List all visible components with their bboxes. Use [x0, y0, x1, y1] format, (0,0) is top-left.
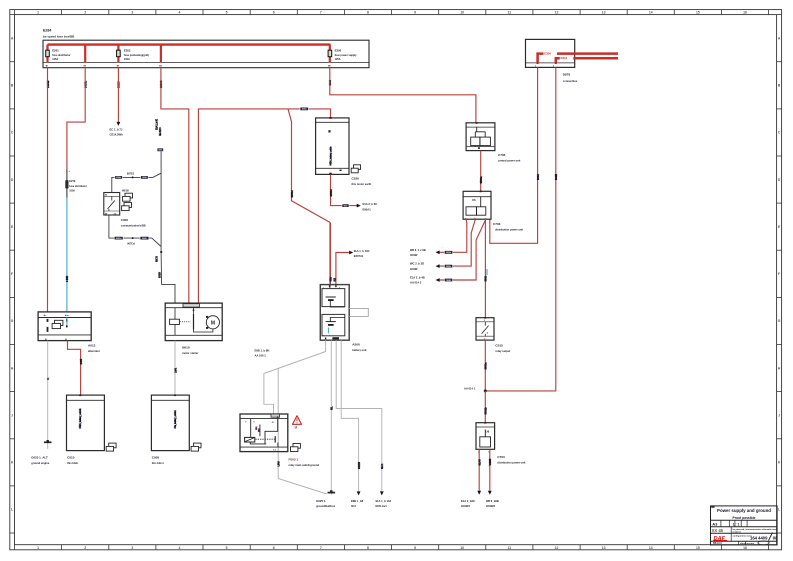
- svg-text:L9A1: L9A1: [174, 367, 177, 373]
- wire A500 to ground G025: [330, 340, 332, 495]
- svg-text:E6B 1_b 8H: E6B 1_b 8H: [255, 348, 270, 352]
- svg-text:E300: E300: [544, 51, 551, 55]
- svg-text:U6: U6: [472, 198, 476, 202]
- alternator A013: [38, 312, 91, 341]
- warning triangle F003: [293, 416, 302, 425]
- battery cell symbol lower A500: [326, 318, 345, 334]
- svg-text:central power unit: central power unit: [498, 159, 520, 163]
- svg-text:2495: 2495: [79, 358, 83, 364]
- B010 solenoid coil: [170, 319, 180, 324]
- svg-text:W8 6_b6B: W8 6_b6B: [486, 499, 499, 503]
- battery unit A500: [320, 285, 349, 341]
- wire A500 to F003 coil: [264, 340, 326, 414]
- icon F003 housing: [291, 444, 301, 452]
- icon C010 housing: [106, 443, 116, 451]
- svg-text:14: 14: [649, 10, 653, 14]
- svg-text:13: 13: [602, 546, 606, 550]
- svg-text:16: 16: [743, 546, 747, 550]
- svg-text:3: 3: [131, 10, 133, 14]
- title block: [711, 506, 778, 545]
- svg-text:9: 9: [414, 10, 416, 14]
- C703 lower internal: [480, 430, 491, 448]
- svg-text:907Cxl: 907Cxl: [127, 242, 135, 245]
- svg-text:G023 1_ALT: G023 1_ALT: [31, 456, 48, 460]
- wire C020 to E1A arrow: [331, 175, 358, 206]
- svg-text:91L: 91L: [332, 406, 334, 410]
- svg-text:E202: E202: [124, 48, 131, 52]
- svg-text:motor starter: motor starter: [182, 351, 198, 355]
- svg-text:connectbox: connectbox: [563, 79, 578, 83]
- relay C015 contact: [482, 322, 489, 336]
- svg-text:1: 1: [37, 546, 39, 550]
- svg-text:6: 6: [273, 10, 275, 14]
- svg-text:this motor earth: this motor earth: [352, 182, 372, 186]
- svg-text:G: G: [11, 319, 14, 323]
- E284 pin numbers: [46, 65, 332, 68]
- wire label 9001: [486, 269, 488, 275]
- svg-text:6 1: 6 1: [273, 450, 276, 452]
- svg-text:D878: D878: [563, 73, 571, 77]
- svg-text:2: 2: [245, 422, 246, 424]
- distribution unit C703: [463, 191, 491, 220]
- svg-text:2: 2: [84, 10, 86, 14]
- svg-text:B: B: [778, 84, 781, 88]
- wire label 9000a: [300, 107, 309, 110]
- wire node to C703 lower: [484, 391, 486, 423]
- wire label 9508d: [444, 251, 453, 254]
- connect box D878: [526, 39, 575, 67]
- wire thin red to A500 with arrow branch: [336, 253, 351, 285]
- wire thick battery feed 1: [538, 54, 618, 63]
- B010 contact bar: [193, 314, 195, 330]
- starter motor B010: [165, 303, 222, 341]
- wire black trunk: [161, 151, 175, 304]
- svg-text:8: 8: [367, 10, 369, 14]
- svg-text:91A 1: 91A 1: [381, 463, 384, 469]
- svg-text:fuse distributor: fuse distributor: [69, 185, 87, 188]
- svg-text:A: A: [11, 36, 14, 40]
- svg-text:BB 10.0: BB 10.0: [713, 542, 722, 545]
- wire A500 through F003 to ground: [278, 368, 327, 494]
- svg-text:3: 3: [131, 546, 133, 550]
- svg-text:EC 1_b 7J: EC 1_b 7J: [110, 128, 123, 132]
- svg-text:2: 2: [484, 320, 485, 322]
- svg-text:30: 30: [329, 129, 331, 132]
- svg-text:3 BM: 3 BM: [65, 275, 69, 282]
- ground G023 1_ALT: [44, 441, 52, 443]
- svg-text:H01W: H01W: [410, 267, 418, 271]
- svg-text:distribution power unit: distribution power unit: [497, 460, 525, 464]
- icon C020 housing: [351, 165, 360, 173]
- svg-text:E284: E284: [43, 29, 51, 33]
- svg-text:9000d: 9000d: [290, 190, 294, 198]
- wire A013 B- to battery C010: [68, 341, 81, 396]
- svg-text:fuse distributor: fuse distributor: [52, 54, 70, 57]
- C703 internal: [466, 197, 486, 216]
- svg-text:9: 9: [414, 546, 416, 550]
- wire C706 to C703: [480, 151, 482, 192]
- svg-text:E312: E312: [561, 56, 568, 60]
- svg-text:this bbbr: this bbbr: [67, 461, 78, 465]
- F003 linkage dashed: [255, 438, 274, 440]
- svg-text:86: 86: [105, 195, 107, 197]
- svg-text:communication/s/BB: communication/s/BB: [121, 224, 146, 227]
- wire label 9002d: [114, 236, 124, 239]
- wire pin2 to connector E279: [67, 68, 85, 170]
- wire A500 to arrow 91A: [336, 340, 382, 491]
- wire C703 lower pin a down: [478, 449, 480, 490]
- wire B010 to battery C905: [174, 341, 176, 396]
- svg-text:91A 1_b 13J: 91A 1_b 13J: [376, 499, 392, 503]
- icon C905 housing: [191, 443, 201, 451]
- battery C905: [151, 394, 189, 450]
- svg-text:H018: H018: [122, 189, 129, 193]
- svg-text:W865: W865: [488, 458, 492, 465]
- svg-text:9001b: 9001b: [484, 407, 488, 415]
- svg-text:E: E: [778, 225, 781, 229]
- svg-text:fuse power supply: fuse power supply: [335, 54, 358, 57]
- svg-text:a: a: [69, 171, 71, 173]
- svg-text:C408: C408: [121, 218, 129, 222]
- relay F003: [240, 414, 288, 452]
- svg-text:900e: 900e: [344, 205, 348, 207]
- wire C703 to relay C015: [484, 219, 486, 318]
- svg-text:F: F: [778, 272, 780, 276]
- svg-text:C010: C010: [67, 456, 75, 460]
- svg-text:E1A 2_b 4B: E1A 2_b 4B: [410, 276, 425, 280]
- junction dot 9002: [132, 237, 134, 239]
- svg-text:C706: C706: [498, 153, 506, 157]
- svg-text:100A: 100A: [124, 58, 130, 61]
- svg-text:2: 2: [339, 287, 340, 289]
- svg-text:9002 d: 9002 d: [116, 238, 122, 240]
- C706 internal fuses: [471, 127, 491, 147]
- svg-text:C020: C020: [352, 177, 360, 181]
- svg-text:6: 6: [273, 546, 275, 550]
- svg-text:F: F: [11, 272, 13, 276]
- svg-text:E1A 2_b 9E: E1A 2_b 9E: [156, 118, 159, 130]
- svg-text:11: 11: [508, 546, 512, 550]
- F003 contact: [274, 436, 276, 442]
- svg-text:E6B 1_b8: E6B 1_b8: [351, 499, 364, 503]
- B010 motor M: [206, 316, 219, 329]
- svg-text:L: L: [11, 508, 13, 512]
- svg-text:7: 7: [320, 546, 322, 550]
- svg-text:H01W: H01W: [410, 253, 418, 257]
- fuse box E284: [43, 29, 369, 68]
- node AA 014 1: [484, 389, 487, 392]
- svg-text:ground/battbox: ground/battbox: [316, 504, 336, 508]
- wire label 9002f: [140, 236, 150, 239]
- svg-text:WC 2_b 2D: WC 2_b 2D: [410, 262, 424, 266]
- relay C015: [476, 317, 494, 340]
- svg-text:B-: B-: [45, 339, 48, 341]
- wire fuse drop pin 3: [117, 45, 119, 63]
- svg-text:92C B: 92C B: [156, 256, 158, 262]
- svg-text:8 1: 8 1: [272, 422, 275, 424]
- battery C010: [67, 394, 105, 450]
- svg-text:7: 7: [320, 10, 322, 14]
- wire C703 pin c to E1A arrow: [439, 219, 486, 280]
- wire label 9508e: [444, 264, 453, 267]
- svg-text:13: 13: [602, 10, 606, 14]
- wire cyan E279 to alternator: [66, 198, 68, 312]
- svg-text:4: 4: [179, 10, 181, 14]
- svg-text:12: 12: [555, 10, 559, 14]
- svg-text:1: 1: [323, 287, 324, 289]
- svg-text:L: L: [778, 508, 780, 512]
- svg-text:2: 2: [553, 66, 554, 68]
- wire fuse E202 stub arrow: [117, 68, 119, 122]
- svg-text:85: 85: [105, 213, 107, 215]
- svg-text:9001V: 9001V: [159, 271, 161, 278]
- wire C703 pin a to W8 arrow: [439, 219, 467, 252]
- wire fuse E201 to alternator A013: [47, 68, 49, 312]
- svg-text:fuse preheating(grid): fuse preheating(grid): [124, 54, 149, 57]
- svg-text:9000d: 9000d: [329, 189, 333, 197]
- wire fuse drop pin 5: [329, 45, 331, 63]
- svg-text:E67LAv1: E67LAv1: [376, 504, 388, 508]
- svg-text:5: 5: [226, 546, 228, 550]
- svg-text:W8 6_1 x 6B: W8 6_1 x 6B: [410, 248, 426, 252]
- wire label 9508f: [444, 278, 453, 281]
- relay C408: [104, 193, 120, 216]
- svg-text:9500a: 9500a: [479, 176, 483, 184]
- svg-text:91A 1_b 10C: 91A 1_b 10C: [354, 249, 370, 253]
- battery cell symbol upper A500: [326, 297, 345, 307]
- svg-text:E1A 2_b2C: E1A 2_b2C: [461, 499, 475, 503]
- svg-text:be powered, interconnection sc: be powered, interconnection schematic tr…: [733, 528, 779, 531]
- svg-text:D: D: [11, 178, 14, 182]
- svg-text:F003 1: F003 1: [289, 458, 299, 462]
- wire C703 pin b to WC arrow: [439, 219, 476, 266]
- svg-text:C015: C015: [495, 344, 503, 348]
- svg-text:D: D: [778, 178, 781, 182]
- wire fuse drop pin 2: [84, 45, 86, 63]
- svg-text:5F: 5F: [295, 428, 298, 430]
- wire D878 pin2 down to node AA 014 1: [485, 67, 556, 391]
- svg-text:9004f: 9004f: [142, 176, 147, 179]
- svg-text:Power supply and ground: Power supply and ground: [717, 508, 771, 513]
- svg-text:K: K: [11, 461, 14, 465]
- svg-text:900A: 900A: [536, 174, 540, 180]
- svg-text:AA 016 1: AA 016 1: [255, 354, 267, 358]
- svg-text:3C4: 3C4: [351, 504, 356, 508]
- svg-text:11: 11: [508, 10, 512, 14]
- power unit C706: [466, 122, 495, 150]
- svg-text:9001a: 9001a: [484, 362, 488, 370]
- svg-text:AE 012 3: AE 012 3: [159, 127, 162, 136]
- wire D878 pin1 down to C703: [490, 67, 538, 243]
- wire C703 lower pin b down: [489, 449, 491, 490]
- svg-text:987GJ: 987GJ: [127, 172, 135, 175]
- svg-text:5: 5: [226, 10, 228, 14]
- svg-text:E90A1: E90A1: [363, 207, 372, 211]
- wire relay C015 to node AA 014 1: [484, 340, 486, 391]
- wire fuse drop pin 1: [46, 45, 48, 63]
- svg-text:CE14,5WA: CE14,5WA: [110, 132, 123, 136]
- svg-text:125A: 125A: [335, 58, 341, 61]
- wire relay top to black trunk: [112, 173, 161, 192]
- distribution unit C703 lower: [476, 422, 495, 449]
- svg-text:10: 10: [460, 10, 464, 14]
- B010 internal wires: [175, 308, 213, 336]
- wire battery bus to starter and A500: [198, 109, 330, 306]
- svg-text:15: 15: [696, 546, 700, 550]
- svg-text:900B: 900B: [554, 174, 558, 180]
- svg-text:9508e: 9508e: [446, 266, 451, 268]
- svg-text:E1A 2_b 6C: E1A 2_b 6C: [363, 202, 378, 206]
- svg-text:relay output: relay output: [495, 349, 510, 353]
- svg-text:1: 1: [484, 339, 485, 341]
- B010 linkage dashed: [180, 321, 191, 323]
- svg-text:9001: 9001: [484, 275, 488, 281]
- svg-text:9002 f: 9002 f: [142, 238, 147, 240]
- svg-text:04a_battery_cable1: 04a_battery_cable1: [174, 410, 177, 429]
- svg-text:B4: B4: [159, 65, 162, 68]
- svg-text:2: 2: [84, 546, 86, 550]
- svg-text:U8: U8: [486, 430, 490, 434]
- F003 internal wires: [250, 416, 278, 447]
- svg-text:100A: 100A: [69, 190, 75, 193]
- svg-text:4: 4: [179, 546, 181, 550]
- svg-text:15: 15: [696, 10, 700, 14]
- svg-text:16: 16: [743, 10, 747, 14]
- svg-text:be speed fuse box/BB: be speed fuse box/BB: [43, 34, 75, 38]
- wire fuse drop pin 4: [160, 45, 162, 63]
- svg-text:E201: E201: [52, 48, 59, 52]
- svg-text:08: 08: [773, 535, 778, 540]
- svg-text:90B1W: 90B1W: [359, 461, 361, 469]
- relay C408 contact: [108, 196, 115, 211]
- svg-text:04BA_battery_cable: 04BA_battery_cable: [330, 146, 333, 166]
- svg-text:J: J: [11, 413, 13, 417]
- fuse E202 100A: [117, 48, 149, 61]
- svg-text:A: A: [778, 36, 781, 40]
- svg-text:B: B: [11, 84, 14, 88]
- wire red bus bar in E284: [48, 43, 331, 45]
- svg-text:9508f: 9508f: [446, 280, 451, 282]
- connector box C020: [316, 117, 349, 175]
- wire label 9004d: [115, 176, 123, 179]
- svg-text:XX 45: XX 45: [712, 528, 724, 533]
- svg-text:AA 014 1: AA 014 1: [464, 386, 476, 390]
- svg-text:H01W2: H01W2: [486, 504, 495, 508]
- wire A500 to arrow E6B: [341, 340, 358, 491]
- svg-text:125A: 125A: [52, 58, 58, 61]
- svg-text:L9A5: L9A5: [278, 461, 281, 467]
- svg-text:30: 30: [114, 213, 116, 215]
- junction dot 9004: [132, 176, 134, 178]
- wire label 900e: [342, 204, 350, 207]
- svg-text:C: C: [11, 131, 14, 135]
- wire A013 to ground G023: [47, 341, 49, 449]
- svg-text:K: K: [778, 461, 781, 465]
- svg-text:dfm: dfm: [65, 315, 69, 317]
- svg-text:C: C: [778, 131, 781, 135]
- svg-text:H: H: [778, 366, 781, 370]
- wire fuse E300 to C706: [330, 68, 476, 123]
- svg-text:B+: B+: [44, 315, 48, 317]
- svg-text:b: b: [487, 332, 489, 334]
- wire thick battery cable to A500: [329, 223, 331, 285]
- A013 internal: [52, 320, 63, 328]
- svg-text:B010: B010: [182, 346, 190, 350]
- svg-text:G025 1: G025 1: [316, 499, 326, 503]
- svg-text:H: H: [11, 366, 14, 370]
- svg-text:E279: E279: [69, 179, 76, 183]
- svg-text:ground engine: ground engine: [31, 461, 50, 465]
- svg-text:A500: A500: [352, 342, 360, 346]
- junction dot trunk: [160, 251, 162, 253]
- svg-text:trucknet: trucknet: [733, 531, 742, 534]
- svg-text:04BA_battery_cable1: 04BA_battery_cable1: [79, 408, 82, 429]
- svg-text:5: 5: [254, 422, 255, 424]
- svg-text:91A5: 91A5: [478, 459, 482, 466]
- svg-text:C703: C703: [493, 222, 501, 226]
- svg-text:8: 8: [367, 546, 369, 550]
- svg-text:1: 1: [535, 66, 536, 68]
- svg-text:J: J: [778, 413, 780, 417]
- svg-text:E300: E300: [335, 48, 342, 52]
- svg-text:C905: C905: [152, 456, 160, 460]
- svg-text:3: 3: [323, 336, 324, 338]
- A500 pins: [325, 285, 339, 339]
- svg-text:14: 14: [649, 546, 653, 550]
- wire label E312 red: [560, 56, 574, 60]
- wire relay bottom to black trunk: [109, 215, 161, 247]
- svg-text:this bbrst: this bbrst: [152, 461, 164, 465]
- wire label 906b: [157, 148, 164, 151]
- svg-text:E307A1: E307A1: [354, 254, 364, 258]
- svg-text:relay main switchground: relay main switchground: [289, 463, 320, 467]
- ground G025 1: [328, 492, 336, 494]
- svg-text:G: G: [778, 319, 781, 323]
- fuse E201 125A: [46, 48, 71, 61]
- svg-text:164 4409: 164 4409: [750, 535, 768, 540]
- svg-text:1: 1: [37, 10, 39, 14]
- wire thick battery feed 2: [556, 58, 618, 63]
- svg-text:12: 12: [555, 546, 559, 550]
- svg-text:H01W4: H01W4: [461, 504, 470, 508]
- svg-text:902: 902: [329, 277, 333, 282]
- svg-text:10: 10: [460, 546, 464, 550]
- A500 side notch: [349, 308, 368, 316]
- wire pin4 to starter B010: [161, 68, 189, 307]
- svg-text:distribution power unit: distribution power unit: [495, 227, 523, 231]
- F003 coil: [245, 437, 255, 442]
- wire label E300 red: [544, 51, 558, 55]
- connector E279: [65, 179, 87, 193]
- svg-text:A013: A013: [88, 343, 96, 347]
- svg-text:E: E: [11, 225, 14, 229]
- svg-text:1 : 1: 1 : 1: [733, 522, 740, 526]
- svg-text:alternator: alternator: [88, 349, 100, 353]
- svg-text:31: 31: [48, 377, 50, 380]
- wire label 9004f: [140, 176, 148, 179]
- svg-text:battery unit: battery unit: [352, 348, 366, 352]
- svg-text:Proof possible: Proof possible: [733, 516, 756, 520]
- svg-text:A3: A3: [712, 522, 718, 527]
- svg-text:C703: C703: [497, 455, 505, 459]
- svg-text:M: M: [211, 320, 215, 326]
- svg-text:AA 014 2: AA 014 2: [410, 281, 422, 285]
- svg-text:sheet version: sheet version: [740, 542, 755, 545]
- fuse E300 125A: [328, 48, 357, 61]
